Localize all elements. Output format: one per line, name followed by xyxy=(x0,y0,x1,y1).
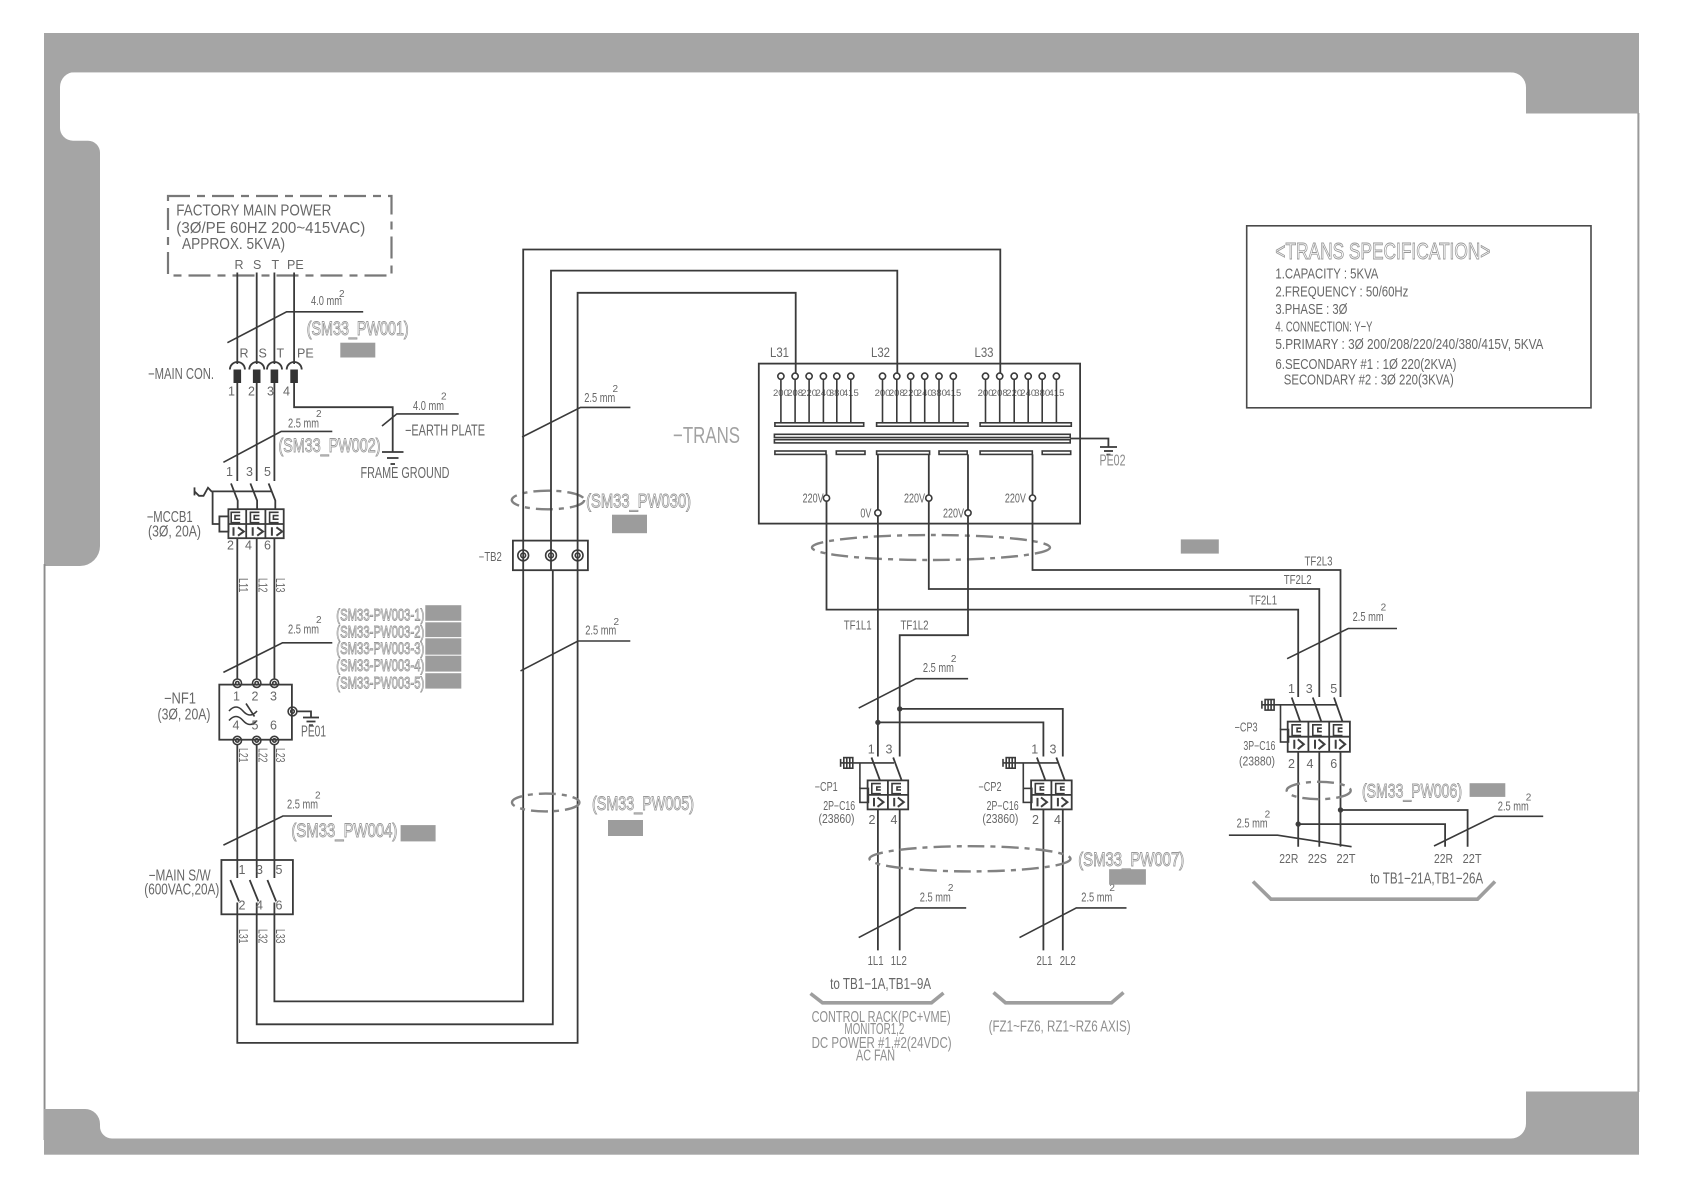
svg-text:T: T xyxy=(272,258,280,272)
frame left tab xyxy=(44,72,100,566)
svg-text:4: 4 xyxy=(233,719,240,733)
svg-text:2: 2 xyxy=(869,813,876,827)
svg-text:3.PHASE : 3Ø: 3.PHASE : 3Ø xyxy=(1275,301,1347,318)
svg-text:4. CONNECTION: Y−Y: 4. CONNECTION: Y−Y xyxy=(1275,318,1372,335)
svg-text:FRAME GROUND: FRAME GROUND xyxy=(361,465,450,482)
svg-text:PE: PE xyxy=(287,258,304,272)
redaction box PW003-3 xyxy=(425,638,461,654)
redaction box PW001 xyxy=(340,343,375,358)
circuit breaker CP1 xyxy=(815,742,909,827)
frame right page edge line xyxy=(1637,113,1639,1092)
destination bracket CP3 xyxy=(1253,871,1495,900)
redaction box PW003-2 xyxy=(425,622,461,637)
frame top band xyxy=(44,33,1639,72)
svg-text:220V: 220V xyxy=(1005,492,1026,506)
svg-text:1: 1 xyxy=(228,385,235,399)
svg-text:2: 2 xyxy=(248,385,255,399)
svg-text:2.5 mm: 2.5 mm xyxy=(923,660,954,675)
secondary tap 220V a xyxy=(803,454,830,505)
svg-text:TF2L1: TF2L1 xyxy=(1249,594,1277,608)
wire 1L1 xyxy=(868,809,884,968)
svg-text:2.5 mm: 2.5 mm xyxy=(920,889,951,904)
svg-text:2: 2 xyxy=(239,899,246,913)
svg-text:2: 2 xyxy=(441,392,447,403)
svg-text:1L1: 1L1 xyxy=(868,954,884,968)
ground PE02 xyxy=(1070,439,1125,470)
svg-text:2: 2 xyxy=(614,617,620,628)
svg-text:2: 2 xyxy=(227,538,234,552)
wire TB2-2 to trans L32 xyxy=(551,271,897,541)
redaction box PW003-4 xyxy=(425,656,461,672)
svg-text:(SM33-PW003-1): (SM33-PW003-1) xyxy=(336,607,424,625)
svg-text:0V: 0V xyxy=(860,506,871,520)
svg-text:2: 2 xyxy=(315,791,321,802)
ground PE01 xyxy=(288,707,326,741)
wire L32 run to TB2 xyxy=(255,570,552,1024)
svg-text:3: 3 xyxy=(886,742,893,756)
shield ellipse PW030 xyxy=(512,491,584,510)
shield ellipse under trans xyxy=(812,535,1050,560)
wire branch to CP2 pole3 xyxy=(900,709,1063,757)
wire S contact to MCCB xyxy=(256,383,258,481)
wire phase S drop xyxy=(256,273,258,365)
svg-text:L33: L33 xyxy=(975,344,994,360)
shield ellipse PW006 xyxy=(1287,782,1351,799)
label 2.5mm2 leader 1L xyxy=(859,883,967,938)
wire TF2L3 xyxy=(1033,501,1341,697)
svg-text:(SM33_PW007): (SM33_PW007) xyxy=(1078,849,1184,871)
wire TB2-3 to trans L33 xyxy=(578,293,796,541)
svg-text:AC FAN: AC FAN xyxy=(856,1048,895,1065)
svg-text:6: 6 xyxy=(1330,757,1337,771)
svg-text:1: 1 xyxy=(233,690,240,704)
svg-text:6.SECONDARY #1 : 1Ø 220(2KVA): 6.SECONDARY #1 : 1Ø 220(2KVA) xyxy=(1275,356,1456,373)
redaction box PW007 xyxy=(1109,869,1146,885)
svg-text:2: 2 xyxy=(1265,809,1271,820)
svg-text:2.5 mm: 2.5 mm xyxy=(288,416,319,431)
svg-text:4: 4 xyxy=(256,899,263,913)
transformer primary taps L32 xyxy=(875,373,968,426)
svg-text:to TB1−21A,TB1−26A: to TB1−21A,TB1−26A xyxy=(1370,871,1483,888)
svg-text:PE02: PE02 xyxy=(1100,453,1126,470)
svg-text:6: 6 xyxy=(276,899,283,913)
svg-text:2.5 mm: 2.5 mm xyxy=(1498,799,1529,814)
label 2.5mm2 leader CP1 feed xyxy=(859,654,968,708)
svg-text:2: 2 xyxy=(316,409,322,420)
svg-text:(SM33_PW006): (SM33_PW006) xyxy=(1362,781,1462,803)
wire L22 xyxy=(255,745,269,860)
svg-text:2.5 mm: 2.5 mm xyxy=(287,797,318,812)
destination bracket CP1 xyxy=(811,976,944,1003)
svg-text:FACTORY MAIN POWER: FACTORY MAIN POWER xyxy=(176,203,331,220)
svg-text:(SM33-PW003-2): (SM33-PW003-2) xyxy=(336,624,424,642)
cable label SM33_PW002 xyxy=(279,435,381,457)
wire L12 xyxy=(255,538,269,679)
wire L31 run to TB2 xyxy=(236,570,578,1043)
wire 22T xyxy=(1337,752,1356,866)
svg-text:3: 3 xyxy=(270,690,277,704)
svg-text:1: 1 xyxy=(1288,682,1295,696)
frame bottom band xyxy=(44,1139,1639,1155)
svg-text:2.5 mm: 2.5 mm xyxy=(585,623,616,638)
svg-text:(SM33-PW003-5): (SM33-PW003-5) xyxy=(336,675,424,693)
shield ellipse PW007 xyxy=(870,846,1071,871)
wire PE drop xyxy=(293,273,295,365)
trans specification box xyxy=(1247,226,1591,408)
svg-text:(SM33_PW030): (SM33_PW030) xyxy=(586,491,691,513)
CP2 trip accessory xyxy=(1003,758,1058,803)
label 2.5mm2 leader PW002 xyxy=(223,409,332,462)
svg-text:(SM33_PW005): (SM33_PW005) xyxy=(592,793,694,815)
svg-text:SECONDARY #2 : 3Ø 220(3KVA): SECONDARY #2 : 3Ø 220(3KVA) xyxy=(1284,372,1454,389)
svg-text:2: 2 xyxy=(339,289,345,300)
cable label SM33_PW030 xyxy=(586,491,691,513)
label 2.5mm2 leader 22 right xyxy=(1434,793,1543,847)
wire 1L2 xyxy=(891,809,907,968)
svg-text:1: 1 xyxy=(1031,742,1038,756)
redaction box PW003-5 xyxy=(425,673,461,688)
svg-text:4: 4 xyxy=(891,813,898,827)
redaction box PW005 xyxy=(608,820,643,836)
transformer TRANS box xyxy=(673,344,1080,524)
label 4.0mm2 leader PW001 xyxy=(227,289,363,343)
svg-text:2L1: 2L1 xyxy=(1037,954,1053,968)
svg-text:4.0 mm: 4.0 mm xyxy=(311,293,342,308)
wire 22S xyxy=(1308,752,1327,866)
svg-text:5: 5 xyxy=(276,863,283,877)
frame top-right block xyxy=(1511,72,1639,114)
transformer core xyxy=(774,434,1070,443)
svg-text:L32: L32 xyxy=(255,929,269,944)
frame left page edge line xyxy=(44,564,46,1140)
secondary tap 220V d xyxy=(1005,454,1036,505)
label 2.5mm2 leader CP3 feed xyxy=(1287,603,1397,659)
svg-text:5: 5 xyxy=(1330,682,1337,696)
junction 22T branch xyxy=(1338,807,1343,812)
svg-text:3: 3 xyxy=(256,863,263,877)
redaction box PW006 xyxy=(1470,783,1506,797)
cable label SM33_PW007 xyxy=(1078,849,1184,871)
wire TF1L1 xyxy=(844,516,878,757)
svg-text:L32: L32 xyxy=(871,344,890,360)
svg-text:<TRANS SPECIFICATION>: <TRANS SPECIFICATION> xyxy=(1275,238,1490,264)
circuit breaker CP3 xyxy=(1235,682,1350,771)
cable label SM33_PW005 xyxy=(592,793,694,815)
wire TF1L2 xyxy=(900,516,968,757)
wire TF2L1 xyxy=(827,501,1299,697)
svg-text:−TRANS: −TRANS xyxy=(673,422,740,448)
svg-text:(23880): (23880) xyxy=(1239,754,1275,768)
label 2.5mm2 leader 2L xyxy=(1020,883,1127,938)
secondary tap 0V xyxy=(860,454,881,520)
svg-text:6: 6 xyxy=(270,719,277,733)
circuit breaker MCCB1 xyxy=(147,465,284,552)
cable label SM33-PW003-3 xyxy=(336,640,424,658)
svg-text:R: R xyxy=(240,347,249,361)
frame bottom-left piece xyxy=(44,1109,112,1139)
svg-text:2: 2 xyxy=(316,615,322,626)
svg-text:(23860): (23860) xyxy=(982,812,1018,826)
svg-text:L22: L22 xyxy=(255,748,269,763)
svg-text:to TB1−1A,TB1−9A: to TB1−1A,TB1−9A xyxy=(830,976,931,993)
wire L21 xyxy=(236,745,250,860)
redaction box PW003-1 xyxy=(425,605,461,621)
load text CP2 xyxy=(989,1019,1131,1036)
svg-text:(SM33_PW002): (SM33_PW002) xyxy=(279,435,381,457)
svg-text:(3Ø/PE 60HZ 200~415VAC): (3Ø/PE 60HZ 200~415VAC) xyxy=(176,220,365,237)
svg-text:2: 2 xyxy=(613,384,619,395)
label 2.5mm2 leader 22 left xyxy=(1229,809,1352,846)
svg-text:L33: L33 xyxy=(273,929,287,944)
cable label SM33-PW003-4 xyxy=(336,657,424,675)
svg-text:(23860): (23860) xyxy=(819,812,855,826)
svg-text:2.5 mm: 2.5 mm xyxy=(1353,609,1384,624)
svg-text:L23: L23 xyxy=(273,748,287,763)
wire L11 xyxy=(236,538,250,679)
svg-text:2.5 mm: 2.5 mm xyxy=(288,621,319,636)
svg-text:T: T xyxy=(277,347,285,361)
svg-text:2L2: 2L2 xyxy=(1060,954,1076,968)
svg-text:3: 3 xyxy=(1306,682,1313,696)
svg-text:4: 4 xyxy=(283,385,290,399)
svg-text:(FZ1~FZ6, RZ1~RZ6 AXIS): (FZ1~FZ6, RZ1~RZ6 AXIS) xyxy=(989,1019,1131,1036)
svg-text:1: 1 xyxy=(868,742,875,756)
svg-text:2: 2 xyxy=(252,690,259,704)
svg-text:2: 2 xyxy=(1526,793,1532,804)
svg-text:22T: 22T xyxy=(1337,852,1356,866)
wire TB2-1 to trans L31 xyxy=(523,250,1000,541)
svg-text:220V: 220V xyxy=(943,506,964,520)
wire T contact to MCCB xyxy=(273,383,275,481)
svg-text:4.0 mm: 4.0 mm xyxy=(413,398,444,413)
svg-text:5.PRIMARY : 3Ø 200/208/220/240: 5.PRIMARY : 3Ø 200/208/220/240/380/415V,… xyxy=(1275,336,1543,353)
svg-text:1: 1 xyxy=(239,863,246,877)
svg-text:L31: L31 xyxy=(236,929,250,944)
svg-text:4: 4 xyxy=(245,538,252,552)
svg-text:3: 3 xyxy=(1050,742,1057,756)
transformer primary taps L31 xyxy=(773,373,864,426)
CP3 trip accessory xyxy=(1262,700,1336,743)
svg-text:−TB2: −TB2 xyxy=(479,550,502,564)
svg-text:220V: 220V xyxy=(904,492,925,506)
secondary tap 220V c xyxy=(943,454,971,520)
svg-text:S: S xyxy=(253,258,261,272)
wire branch 22T second xyxy=(1341,810,1482,866)
wire L13 xyxy=(273,538,287,679)
noise filter NF1 xyxy=(158,679,292,745)
terminal block TB2 xyxy=(479,541,588,571)
svg-text:(SM33-PW003-3): (SM33-PW003-3) xyxy=(336,640,424,658)
svg-text:2: 2 xyxy=(1032,813,1039,827)
svg-text:−MAIN CON.: −MAIN CON. xyxy=(148,366,214,383)
wire 2L2 xyxy=(1060,809,1076,968)
label 2.5mm2 leader below TB2 xyxy=(521,617,631,671)
label 2.5mm2 leader NF1 xyxy=(223,615,332,672)
svg-text:(3Ø, 20A): (3Ø, 20A) xyxy=(148,524,201,541)
svg-text:6: 6 xyxy=(264,538,271,552)
load text CP1 xyxy=(812,1009,952,1065)
svg-text:2: 2 xyxy=(951,654,957,665)
main contactor MAIN CON xyxy=(148,347,314,399)
svg-text:22S: 22S xyxy=(1308,852,1327,866)
svg-text:2: 2 xyxy=(1381,603,1387,614)
circuit breaker CP2 xyxy=(979,742,1072,827)
wire R contact to MCCB xyxy=(236,383,238,481)
label 2.5mm2 leader PW004 xyxy=(223,791,332,846)
earth plate label xyxy=(405,422,485,439)
redaction box under trans xyxy=(1181,539,1219,553)
cable label SM33-PW003-1 xyxy=(336,607,424,625)
svg-text:R: R xyxy=(235,258,244,272)
svg-text:L31: L31 xyxy=(770,344,789,360)
wire branch to CP2 pole1 xyxy=(878,722,1044,756)
wire PE to earth plate xyxy=(294,383,393,452)
svg-text:2: 2 xyxy=(948,883,954,894)
wire 22R xyxy=(1279,752,1298,866)
svg-text:L21: L21 xyxy=(236,748,250,763)
svg-text:S: S xyxy=(259,347,267,361)
svg-text:(3Ø, 20A): (3Ø, 20A) xyxy=(158,707,211,724)
CP1 trip accessory xyxy=(841,758,894,803)
svg-text:3: 3 xyxy=(267,385,274,399)
svg-text:−CP3: −CP3 xyxy=(1235,721,1258,735)
svg-text:(SM33_PW001): (SM33_PW001) xyxy=(307,318,409,340)
wire phase R drop xyxy=(236,273,238,365)
wire L23 xyxy=(273,745,287,860)
svg-text:1: 1 xyxy=(226,465,233,479)
cable label SM33-PW003-2 xyxy=(336,624,424,642)
svg-text:2.FREQUENCY : 50/60Hz: 2.FREQUENCY : 50/60Hz xyxy=(1275,284,1408,301)
svg-text:2.5 mm: 2.5 mm xyxy=(584,390,615,405)
svg-text:2: 2 xyxy=(1288,757,1295,771)
svg-text:2.5 mm: 2.5 mm xyxy=(1081,889,1112,904)
svg-text:−NF1: −NF1 xyxy=(164,690,196,707)
svg-text:−CP2: −CP2 xyxy=(979,780,1002,794)
frame bottom-right block xyxy=(1511,1092,1639,1140)
wire L33 run to TB2 xyxy=(273,570,523,1001)
factory main power source box xyxy=(168,196,392,276)
junction TF1L2 branch xyxy=(897,706,902,711)
destination bracket CP2 xyxy=(994,993,1124,1003)
svg-text:L11: L11 xyxy=(236,578,250,593)
main switch MAIN S/W xyxy=(144,860,293,914)
cable label SM33-PW003-5 xyxy=(336,675,424,693)
svg-text:(SM33-PW003-4): (SM33-PW003-4) xyxy=(336,657,424,675)
svg-text:3P−C16: 3P−C16 xyxy=(1243,739,1275,753)
svg-text:TF1L1: TF1L1 xyxy=(844,619,872,633)
svg-text:L12: L12 xyxy=(255,578,269,593)
svg-text:22R: 22R xyxy=(1279,852,1298,866)
svg-text:TF2L2: TF2L2 xyxy=(1284,573,1312,587)
svg-text:−CP1: −CP1 xyxy=(815,780,838,794)
svg-text:APPROX. 5KVA): APPROX. 5KVA) xyxy=(182,236,285,253)
junction TF1L1 branch xyxy=(875,720,880,725)
cable label SM33_PW004 xyxy=(291,820,397,842)
junction 22R branch xyxy=(1296,821,1301,826)
wire through TB2 xyxy=(523,541,577,571)
svg-text:TF1L2: TF1L2 xyxy=(901,619,929,633)
transformer secondary windings xyxy=(775,451,1071,454)
wire 2L1 xyxy=(1037,809,1053,968)
wire branch 22R second xyxy=(1298,824,1453,866)
svg-text:1L2: 1L2 xyxy=(891,954,907,968)
label 2.5mm2 leader above TB2 xyxy=(522,384,630,437)
redaction box PW030 xyxy=(612,515,647,534)
svg-text:5: 5 xyxy=(252,719,259,733)
svg-text:220V: 220V xyxy=(803,492,824,506)
svg-text:1.CAPACITY : 5KVA: 1.CAPACITY : 5KVA xyxy=(1275,265,1378,282)
secondary tap 220V b xyxy=(904,454,932,505)
svg-text:22T: 22T xyxy=(1463,852,1482,866)
svg-text:4: 4 xyxy=(1307,757,1314,771)
svg-text:(SM33_PW004): (SM33_PW004) xyxy=(291,820,397,842)
svg-text:22R: 22R xyxy=(1434,852,1453,866)
ground frame ground xyxy=(361,452,450,482)
svg-text:−EARTH PLATE: −EARTH PLATE xyxy=(405,422,485,439)
cable label SM33_PW001 xyxy=(307,318,409,340)
svg-text:4: 4 xyxy=(1054,813,1061,827)
transformer primary taps L33 xyxy=(978,373,1072,426)
svg-text:5: 5 xyxy=(264,465,271,479)
svg-text:PE: PE xyxy=(297,347,314,361)
svg-text:(600VAC,20A): (600VAC,20A) xyxy=(144,882,219,899)
redaction box PW004 xyxy=(401,825,436,841)
svg-text:3: 3 xyxy=(246,465,253,479)
cable label SM33_PW006 xyxy=(1362,781,1462,803)
wire TF2L2 xyxy=(929,501,1320,697)
wire phase T drop xyxy=(273,273,275,365)
svg-text:2.5 mm: 2.5 mm xyxy=(1237,816,1268,831)
shield ellipse PW005 xyxy=(512,794,579,812)
svg-text:PE01: PE01 xyxy=(301,724,326,741)
svg-text:L13: L13 xyxy=(273,578,287,593)
label 4.0mm2 earth leader xyxy=(382,392,459,427)
svg-text:TF2L3: TF2L3 xyxy=(1305,555,1333,569)
